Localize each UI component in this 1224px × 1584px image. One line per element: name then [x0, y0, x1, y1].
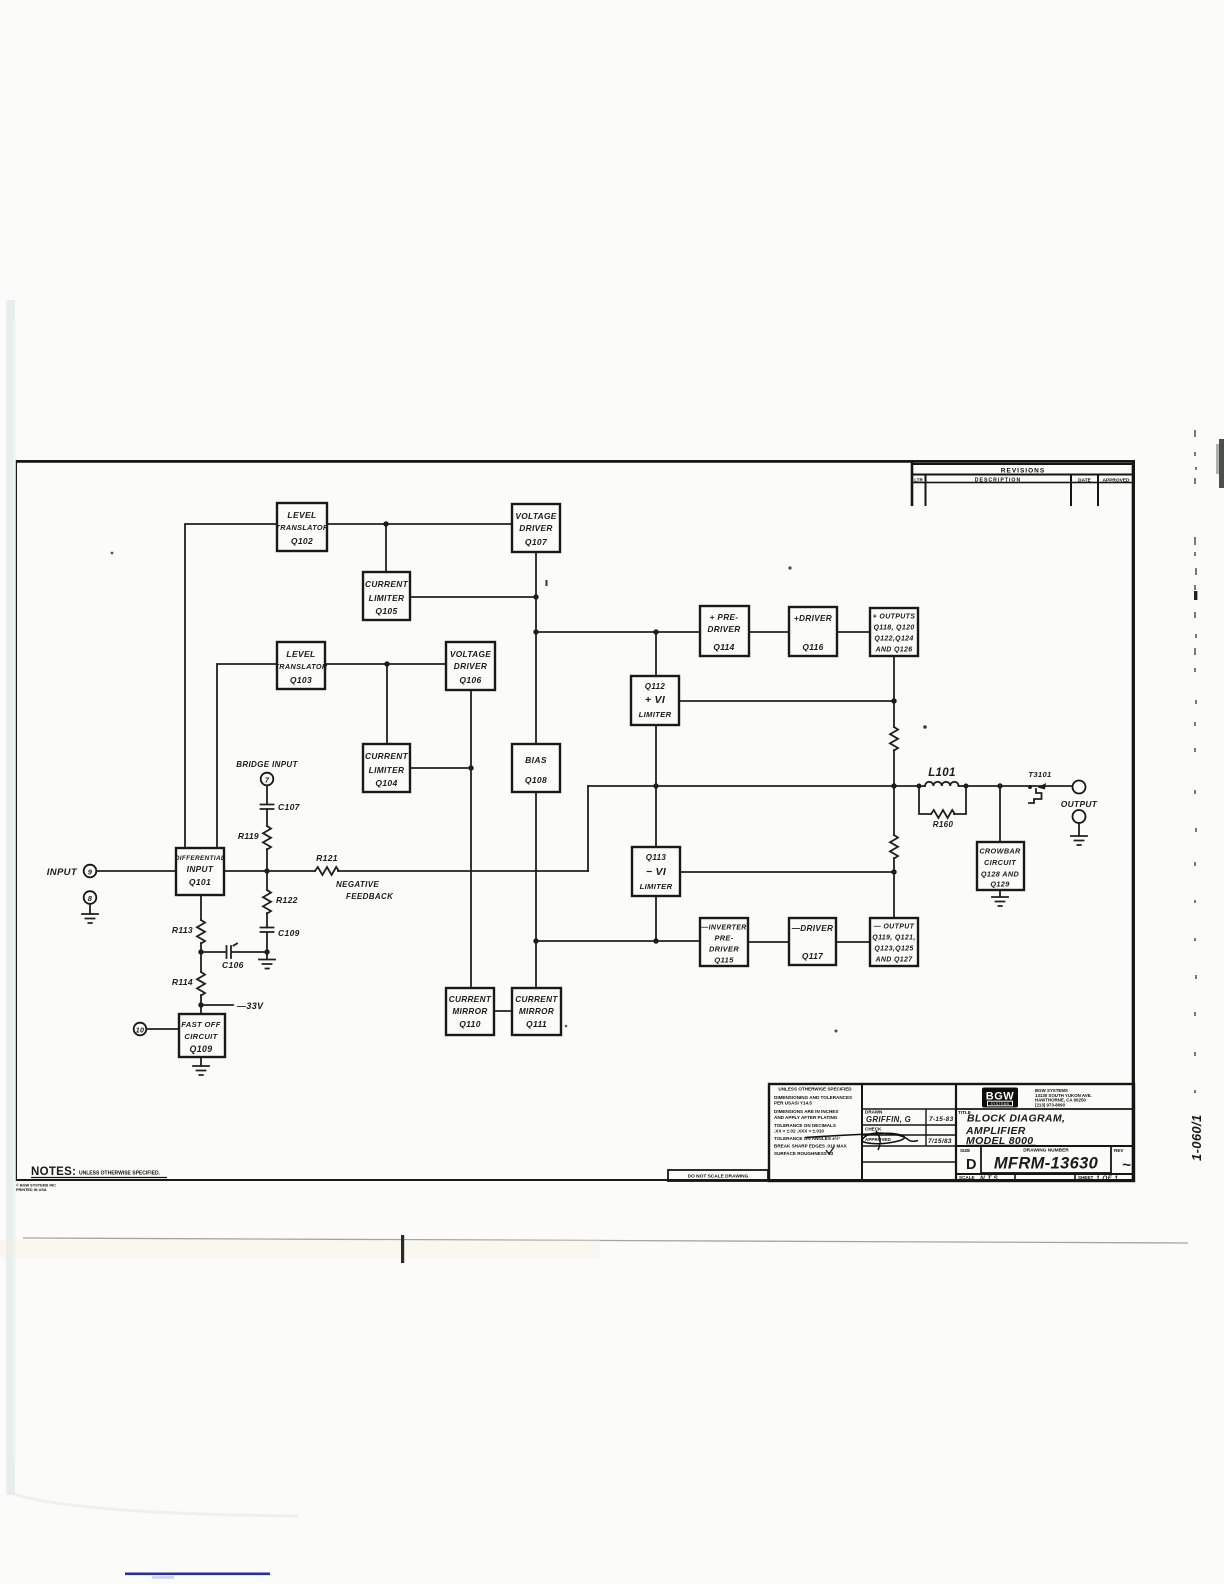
capacitor C109 [261, 928, 274, 933]
title block [668, 1084, 1134, 1182]
node junction outputs vertical on rail [891, 783, 896, 788]
svg-text:© BGW SYSTEMS INC: © BGW SYSTEMS INC [16, 1184, 56, 1188]
svg-text:BRIDGE INPUT: BRIDGE INPUT [236, 760, 298, 769]
svg-text:—33V: —33V [236, 1001, 264, 1011]
node junction at 894,701 [891, 698, 896, 703]
revisions table [912, 462, 1134, 506]
svg-text:DRIVER: DRIVER [709, 945, 739, 954]
block +VI limiter Q112 [631, 676, 679, 725]
ground under terminal 8 [82, 914, 98, 923]
svg-text:LTR: LTR [914, 478, 923, 483]
svg-text:SYSTEMS: SYSTEMS [990, 1102, 1009, 1106]
svg-text:R122: R122 [276, 895, 298, 905]
svg-text:INPUT: INPUT [47, 867, 78, 878]
wire C106 horizontal [201, 951, 267, 953]
svg-text:Q107: Q107 [525, 537, 548, 547]
svg-text:Q122,Q124: Q122,Q124 [874, 636, 913, 643]
svg-text:PER USASI Y14.5: PER USASI Y14.5 [774, 1101, 812, 1106]
svg-text:Q111: Q111 [526, 1019, 547, 1029]
wire bridge chain [266, 786, 268, 960]
svg-text:8: 8 [88, 894, 93, 903]
wire crowbar tap down [999, 786, 1001, 842]
wire Q107 bottom down to bias Q108 [535, 552, 537, 744]
wire Q103 to Q106 [325, 663, 446, 665]
svg-text:CIRCUIT: CIRCUIT [984, 858, 1016, 867]
block current mirror Q110 [446, 988, 494, 1035]
svg-text:REV: REV [1114, 1148, 1124, 1153]
block +outputs Q118 Q120 Q122 Q124 Q126 [870, 608, 918, 656]
svg-text:LIMITER: LIMITER [640, 882, 673, 891]
wire stub to Q105 top [385, 524, 387, 572]
svg-text:R113: R113 [172, 925, 193, 935]
schematic right [588, 606, 1098, 966]
svg-text:NOTES:: NOTES: [31, 1166, 76, 1178]
wire terminal 8 to ground [89, 904, 91, 914]
wire feedback bend up to output rail [587, 786, 589, 871]
block -driver Q117 [789, 918, 836, 965]
svg-text:Q117: Q117 [802, 951, 823, 961]
svg-text:C109: C109 [278, 928, 300, 938]
svg-text:DRIVER: DRIVER [519, 523, 552, 533]
node junction at 536,597 [533, 594, 538, 599]
BGW logo [982, 1088, 1018, 1108]
svg-text:Q105: Q105 [375, 606, 397, 616]
svg-text:CURRENT: CURRENT [365, 579, 409, 589]
svg-text:NEGATIVE: NEGATIVE [336, 880, 379, 889]
svg-text:R114: R114 [172, 977, 193, 987]
node junction at 471,768 [468, 765, 473, 770]
dashed scan noise right margin [1195, 430, 1196, 1093]
svg-text:C107: C107 [278, 802, 301, 812]
stray vertical mark [401, 1235, 404, 1263]
svg-text:Q119, Q121,: Q119, Q121, [872, 935, 915, 942]
wire upper rail to Q114 [536, 631, 700, 633]
resistor R114 [197, 972, 205, 995]
block current mirror Q111 [512, 988, 561, 1035]
svg-text:~: ~ [1122, 1157, 1131, 1174]
node junction Q103/Q104 [384, 661, 389, 666]
block level translator Q103 [277, 642, 325, 689]
svg-text:LIMITER: LIMITER [369, 593, 405, 603]
wire +VI right to outputs vertical [679, 700, 894, 702]
svg-text:VOLTAGE: VOLTAGE [450, 649, 491, 659]
wire crowbar to ground [999, 890, 1001, 897]
wire Q102 to Q107 [327, 523, 512, 525]
svg-text:Q101: Q101 [189, 877, 211, 887]
block +pre-driver Q114 [700, 606, 749, 656]
svg-text:REVISIONS: REVISIONS [1001, 468, 1045, 475]
svg-text:DESCRIPTION: DESCRIPTION [975, 478, 1021, 484]
svg-text:SURFACE ROUGHNESS 63: SURFACE ROUGHNESS 63 [774, 1151, 834, 1156]
svg-text:MIRROR: MIRROR [519, 1007, 554, 1016]
svg-text:BREAK SHARP EDGES .010 MAX: BREAK SHARP EDGES .010 MAX [774, 1144, 848, 1149]
ground under output [1071, 836, 1087, 845]
node junction lower rail at 536,941 [533, 938, 538, 943]
svg-text:Q113: Q113 [646, 853, 667, 862]
svg-text:FAST OFF: FAST OFF [181, 1020, 221, 1029]
svg-text:L101: L101 [928, 767, 956, 779]
approval signature scribble [805, 1131, 918, 1150]
wire -VI right to outputs vertical [680, 871, 894, 873]
node junction at 201,1005 [198, 1002, 203, 1007]
node junction L101 right [964, 784, 969, 789]
wire bias Q108 bottom down to Q111 [535, 792, 537, 988]
svg-text:Q106: Q106 [459, 675, 481, 685]
wire -33V stub [201, 1004, 233, 1006]
node junction at 894,872 [891, 869, 896, 874]
inductor L101 [919, 785, 925, 787]
svg-text:BGW: BGW [986, 1091, 1015, 1103]
wire rail632 between driver blocks [749, 631, 870, 633]
wire lower driver row [748, 941, 870, 943]
svg-text:N.T.S: N.T.S [980, 1175, 998, 1182]
svg-text:DRIVER: DRIVER [707, 625, 740, 634]
stray ink specks [546, 580, 548, 586]
wire to ground [1078, 823, 1080, 836]
svg-text:AND Q127: AND Q127 [874, 957, 913, 964]
block +driver Q116 [789, 607, 837, 656]
svg-text:PRINTED IN USA: PRINTED IN USA [16, 1188, 47, 1192]
block -inverter pre-driver Q115 [700, 918, 748, 966]
svg-text:Q123,Q125: Q123,Q125 [874, 946, 913, 953]
svg-text:UNLESS OTHERWISE SPECIFIED.: UNLESS OTHERWISE SPECIFIED. [79, 1171, 161, 1177]
svg-text:DRAWING NUMBER: DRAWING NUMBER [1023, 1148, 1069, 1154]
svg-text:AND APPLY AFTER PLATING: AND APPLY AFTER PLATING [774, 1115, 838, 1120]
ground under Q109 [193, 1066, 209, 1075]
svg-text:1-060/1: 1-060/1 [1189, 1114, 1204, 1161]
resistor R121 [315, 867, 339, 875]
svg-text:1 OF 1: 1 OF 1 [1096, 1175, 1118, 1182]
svg-text:Q112: Q112 [645, 682, 666, 691]
terminal output ground circle [1073, 810, 1086, 823]
block bias Q108 [512, 744, 560, 792]
svg-text:DIMENSIONS ARE IN INCHES: DIMENSIONS ARE IN INCHES [774, 1109, 838, 1114]
svg-text:BLOCK DIAGRAM,: BLOCK DIAGRAM, [967, 1113, 1065, 1125]
svg-text:Q116: Q116 [802, 642, 823, 652]
block differential input Q101 [176, 848, 224, 895]
wire input terminal to Q101 [97, 870, 177, 872]
svg-text:CHECK: CHECK [865, 1127, 882, 1132]
svg-text:+ OUTPUTS: + OUTPUTS [873, 614, 916, 621]
svg-text:INPUT: INPUT [187, 864, 214, 874]
svg-text:APPROVED: APPROVED [1103, 478, 1130, 484]
block -VI limiter Q113 [632, 847, 680, 896]
svg-text:—INVERTER: —INVERTER [700, 925, 746, 932]
svg-text:LIMITER: LIMITER [369, 765, 405, 775]
svg-text:TRANSLATOR: TRANSLATOR [274, 662, 327, 671]
svg-text:DIMENSIONING AND TOLERANCES: DIMENSIONING AND TOLERANCES [774, 1095, 852, 1100]
ground under crowbar [992, 897, 1008, 906]
left paper edge shadow [6, 300, 15, 1495]
svg-text:PRE-: PRE- [714, 934, 733, 943]
resistor emitter lower [890, 835, 898, 858]
wire stub to Q104 top [386, 664, 388, 744]
svg-text:TRANSLATOR: TRANSLATOR [275, 523, 328, 532]
do not scale drawing box [668, 1170, 768, 1181]
block current limiter Q105 [363, 572, 410, 620]
wire +VI limiter stubs [655, 632, 657, 786]
svg-text:LIMITER: LIMITER [639, 710, 672, 719]
terminal 7 bridge input [261, 773, 274, 786]
right section rows [956, 1108, 1134, 1110]
terminal 8 [84, 891, 97, 904]
ground under bridge chain [259, 960, 275, 969]
block voltage driver Q107 [512, 504, 560, 552]
svg-text:LEVEL: LEVEL [287, 510, 316, 520]
svg-text:—DRIVER: —DRIVER [791, 924, 834, 933]
current sensor T3101 [1028, 785, 1032, 789]
wire -VI limiter stubs [655, 786, 657, 941]
wire lower rail to Q115 [536, 940, 700, 942]
svg-text:(213) 973-8090: (213) 973-8090 [1035, 1102, 1066, 1107]
bottom paper edge shadow [23, 1238, 1188, 1243]
svg-text:CURRENT: CURRENT [515, 995, 558, 1004]
node junction crowbar tap [997, 783, 1002, 788]
svg-text:DATE: DATE [1078, 478, 1092, 484]
svg-text:OUTPUT: OUTPUT [1061, 799, 1098, 809]
node junction VI limiters on rail [653, 783, 658, 788]
resistor R113 [197, 920, 205, 943]
wire Q106 bottom down to Q110 [470, 690, 472, 988]
svg-text:Q109: Q109 [190, 1044, 213, 1054]
svg-text:D: D [966, 1157, 976, 1173]
capacitor C107 [261, 805, 274, 810]
svg-text:CURRENT: CURRENT [365, 751, 409, 761]
block -output Q119 Q121 Q123 Q125 Q127 [870, 918, 918, 966]
node junction L101 left [917, 784, 922, 789]
border frame [16, 461, 1134, 1180]
svg-text:Q110: Q110 [459, 1019, 481, 1029]
schematic left [47, 503, 700, 1075]
svg-text:MIRROR: MIRROR [452, 1007, 487, 1016]
block crowbar circuit Q128 Q129 [977, 842, 1024, 890]
wire Q102 left lead to Q101 top [185, 524, 277, 848]
terminal 10 [134, 1023, 147, 1036]
svg-text:— OUTPUT: — OUTPUT [873, 924, 915, 931]
svg-text:10: 10 [136, 1028, 145, 1035]
node junction rail at 536,632 [533, 629, 538, 634]
wire negative feedback line [224, 870, 588, 872]
svg-text:7: 7 [265, 776, 270, 785]
resistor emitter upper [890, 727, 898, 750]
svg-text:UNLESS OTHERWISE SPECIFIED: UNLESS OTHERWISE SPECIFIED [778, 1087, 852, 1092]
svg-text:VOLTAGE: VOLTAGE [515, 511, 556, 521]
bottom scale row [1014, 1174, 1016, 1181]
svg-text:CURRENT: CURRENT [449, 995, 492, 1004]
node junction +VI top [653, 629, 658, 634]
svg-text:− VI: − VI [646, 866, 667, 878]
svg-text:DIFFERENTIAL: DIFFERENTIAL [175, 855, 225, 862]
svg-text:SHEET: SHEET [1078, 1175, 1094, 1180]
block fast off circuit Q109 [179, 1014, 225, 1057]
wire Q105 out to Q107 vertical [410, 596, 536, 598]
capacitor C106 [227, 946, 232, 958]
node junction Q102/Q105 [383, 521, 388, 526]
node junction -VI bottom [653, 938, 658, 943]
wire Q101 bottom chain [200, 895, 202, 1014]
svg-text:Q115: Q115 [714, 956, 734, 965]
svg-text:DO NOT SCALE DRAWING: DO NOT SCALE DRAWING [688, 1174, 749, 1180]
wire outputs vertical [893, 656, 895, 918]
block current limiter Q104 [363, 744, 410, 792]
svg-text:T3101: T3101 [1028, 770, 1051, 779]
svg-text:DRIVER: DRIVER [454, 661, 487, 671]
svg-text:9: 9 [88, 868, 93, 877]
svg-text:Q114: Q114 [713, 642, 734, 652]
wire Q110 to Q111 [494, 1010, 512, 1012]
svg-text:Q102: Q102 [291, 536, 313, 546]
svg-text:CROWBAR: CROWBAR [979, 847, 1021, 856]
svg-text:R160: R160 [933, 820, 954, 829]
svg-text:Q108: Q108 [525, 775, 547, 785]
svg-text:Q118, Q120: Q118, Q120 [873, 625, 914, 632]
wire Q103 left lead to Q101 top [217, 664, 277, 848]
svg-text:APPROVED: APPROVED [865, 1137, 891, 1142]
svg-text:C106: C106 [222, 960, 244, 970]
resistor R119 [263, 826, 271, 849]
node junction at 201,952 [198, 949, 203, 954]
dark strip top right corner [1219, 439, 1224, 488]
wire Q104 out to Q106 vertical [410, 767, 471, 769]
wire terminal 10 to Q109 [147, 1028, 179, 1030]
terminal output circle [1073, 781, 1086, 794]
tolerance cell smudged text [774, 1087, 852, 1157]
resistor R122 [263, 890, 271, 913]
wire output rail [588, 785, 1072, 787]
wire Q109 to ground [200, 1057, 202, 1066]
svg-text:SCALE: SCALE [959, 1175, 975, 1180]
svg-text:Q104: Q104 [375, 778, 397, 788]
svg-text:TOLERANCE ON DECIMALS: TOLERANCE ON DECIMALS [774, 1123, 836, 1128]
svg-text:R119: R119 [238, 831, 259, 841]
svg-text:BIAS: BIAS [525, 755, 547, 765]
svg-text:7-15-83: 7-15-83 [929, 1116, 954, 1123]
block voltage driver Q106 [446, 642, 495, 690]
svg-text:MFRM-13630: MFRM-13630 [994, 1155, 1099, 1173]
wire parallel loop for R160 [919, 786, 966, 814]
node junction at 267,952 [264, 949, 269, 954]
BGW address smudge [1035, 1088, 1092, 1107]
block level translator Q102 [277, 503, 327, 551]
svg-text:SIZE: SIZE [960, 1148, 970, 1153]
svg-text:+DRIVER: +DRIVER [794, 614, 832, 623]
node junction bridge chain on feedback line [264, 868, 269, 873]
svg-text:7/15/83: 7/15/83 [928, 1138, 952, 1145]
svg-text:Q103: Q103 [290, 675, 312, 685]
svg-text:.XX = ±.02 .XXX = ±.010: .XX = ±.02 .XXX = ±.010 [774, 1129, 824, 1134]
svg-text:+ PRE-: + PRE- [710, 613, 739, 622]
blue pen line bottom [125, 1573, 270, 1576]
svg-text:+ VI: + VI [645, 694, 666, 706]
svg-text:GRIFFIN, G: GRIFFIN, G [866, 1115, 911, 1124]
svg-text:R121: R121 [316, 853, 338, 863]
svg-text:CIRCUIT: CIRCUIT [184, 1032, 218, 1041]
terminal 9 input [84, 865, 97, 878]
svg-text:FEEDBACK: FEEDBACK [346, 892, 394, 901]
svg-text:Q128 AND: Q128 AND [981, 870, 1020, 879]
svg-text:DRAWN: DRAWN [865, 1110, 883, 1115]
svg-text:LEVEL: LEVEL [286, 649, 315, 659]
svg-text:Q129: Q129 [990, 880, 1010, 889]
svg-text:AND Q126: AND Q126 [874, 647, 912, 654]
resistor R160 [931, 810, 955, 818]
